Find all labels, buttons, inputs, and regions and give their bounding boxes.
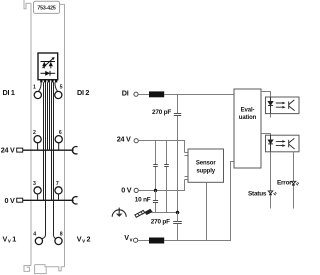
capacitor 270pF (top) plates (174, 114, 181, 116)
wire to 24V rail (right) (49, 82, 51, 150)
svg-text:8: 8 (60, 232, 63, 238)
evaluation box (234, 89, 261, 168)
sensor supply to Vv rail (206, 182, 208, 240)
svg-text:2: 2 (87, 234, 91, 243)
wire Vv to resistor (138, 240, 149, 242)
DI terminal (134, 92, 138, 96)
optocoupler 1 box (266, 97, 300, 114)
svg-text:DI 2: DI 2 (77, 88, 89, 97)
stem contact 3 to 0V rail (37, 194, 39, 200)
24V wire to sensor supply (138, 141, 184, 153)
wire to 24V rail (left) (47, 82, 49, 150)
svg-text:supply: supply (196, 168, 215, 174)
contact 6 (55, 136, 62, 143)
contact 4 (35, 237, 42, 244)
diode symbol (bottom) (41, 72, 56, 74)
stub below optocoupler 1 (270, 114, 272, 118)
vertical DI filter line with 270pF caps (177, 95, 179, 114)
discharge arc symbol (112, 208, 126, 217)
svg-text:1: 1 (12, 234, 16, 243)
0V field rail (module) (17, 197, 78, 204)
wire to contact 1 (39, 82, 42, 91)
error LED wire (293, 152, 295, 209)
shield line (152, 212, 180, 214)
svg-text:DI 1: DI 1 (3, 88, 15, 97)
wire resistor to evaluation (164, 94, 234, 96)
chassis/earth flag symbol (135, 209, 152, 217)
status LED wire (270, 152, 272, 209)
svg-text:270 pF: 270 pF (151, 218, 170, 225)
svg-text:v: v (130, 237, 133, 243)
wire to contact 5 (55, 82, 58, 91)
stem contact 6 to 24V rail (58, 143, 60, 150)
svg-text:10 nF: 10 nF (135, 196, 151, 203)
status LED (268, 191, 276, 195)
svg-text:v: v (8, 239, 11, 245)
wire evaluation to optocoupler 1 (261, 92, 271, 98)
svg-text:0 V: 0 V (121, 185, 131, 194)
bottom foot / DIN rail latch (24, 266, 31, 272)
optocoupler 1 internals (268, 97, 295, 114)
resistor DI (filled) (149, 91, 164, 97)
stem contact 2 to 24V rail (37, 143, 39, 150)
svg-text:0 V: 0 V (5, 196, 15, 205)
module labels (1, 88, 91, 244)
top-left latch notch (24, 0, 31, 9)
svg-text:3: 3 (33, 181, 36, 187)
svg-text:753-425: 753-425 (37, 5, 56, 11)
resistor Vv (filled) (149, 238, 164, 244)
svg-text:V: V (124, 233, 129, 242)
svg-text:24 V: 24 V (1, 146, 15, 155)
contact 1 (34, 91, 41, 98)
blocking caps 24V-0V (155, 141, 157, 191)
753-425 label box (34, 1, 60, 13)
optocoupler 2 internals (268, 135, 295, 152)
svg-text:5: 5 (60, 85, 63, 91)
svg-text:Eval-: Eval- (241, 107, 255, 113)
svg-text:2: 2 (33, 130, 36, 136)
module body outline (24, 0, 65, 274)
wire to 0V rail (left) (43, 82, 45, 200)
svg-text:Status: Status (248, 190, 267, 197)
field terminal rect 24V (17, 148, 23, 152)
error LED (291, 181, 299, 185)
capacitor 270pF (bottom) (173, 222, 182, 224)
pin header bar under icon box (40, 80, 57, 83)
svg-text:V: V (3, 234, 8, 243)
wire DI to resistor (138, 94, 149, 96)
svg-text:uation: uation (239, 115, 257, 121)
internal wire bundle (38, 82, 59, 238)
junction dot 0V/10nF (154, 189, 157, 192)
LED/optocoupler symbol (top) (41, 61, 56, 63)
optocoupler 2 box (266, 135, 300, 152)
24V field rail (module) (17, 147, 78, 154)
svg-text:4: 4 (33, 232, 36, 238)
svg-text:7: 7 (56, 181, 59, 187)
svg-text:v: v (82, 239, 85, 245)
svg-text:24 V: 24 V (117, 134, 131, 143)
0V wire to sensor supply (138, 180, 184, 191)
svg-text:DI: DI (122, 88, 129, 97)
junction dot shield (176, 211, 179, 214)
power jumper socket 24V (72, 147, 77, 154)
field terminal rect 0V (17, 198, 23, 202)
svg-text:Sensor: Sensor (196, 160, 217, 166)
contact numbers (33, 85, 63, 238)
module top edge right of label (60, 4, 65, 266)
svg-text:Error: Error (277, 179, 292, 186)
contact status icon box (38, 53, 58, 80)
svg-text:6: 6 (59, 130, 62, 136)
module left edge (30, 3, 32, 265)
stem contact 7 to 0V rail (58, 194, 60, 200)
power jumper socket 0V (72, 197, 77, 204)
contact 8 (55, 237, 62, 244)
svg-text:V: V (77, 234, 82, 243)
contact 2 (34, 136, 41, 143)
contact 7 (55, 187, 62, 194)
wire evaluation to optocoupler 2 (261, 134, 271, 136)
svg-text:270 pF: 270 pF (152, 109, 171, 116)
10nF cap to shield (155, 191, 157, 213)
contact 3 (34, 187, 41, 194)
sensor supply box (188, 149, 224, 182)
wire to contact 8 (54, 82, 56, 238)
contact 5 (55, 91, 62, 98)
wire to contact 4 (42, 82, 46, 238)
svg-text:1: 1 (33, 85, 36, 91)
contact circles (34, 91, 62, 244)
Vv rail to evaluation (164, 162, 234, 241)
wire to 0V rail (right) (51, 82, 53, 200)
